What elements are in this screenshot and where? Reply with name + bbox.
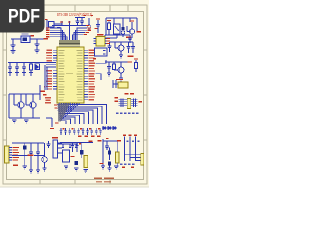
capacitor C8 bbox=[108, 42, 112, 52]
red tick above Q5 bbox=[130, 20, 141, 32]
capacitor C21 bbox=[105, 146, 109, 150]
title text bbox=[57, 12, 92, 17]
red tick above C6 bbox=[95, 18, 100, 29]
wires from U2 top bbox=[50, 21, 88, 40]
ground under C5 bbox=[22, 73, 26, 76]
polar capacitor C23 bbox=[108, 162, 111, 169]
capacitor C19 bbox=[71, 146, 74, 153]
red label under C10 C11 bbox=[128, 56, 134, 57]
red pin labels of J3 bbox=[13, 147, 20, 161]
sheet bottom edge bbox=[0, 186, 149, 189]
capacitor C18 bbox=[47, 141, 51, 148]
connector J5 yellow bottom right bbox=[141, 154, 144, 166]
transistor Q5 far right top bbox=[127, 22, 135, 38]
capacitor C1 bbox=[11, 45, 16, 51]
polar capacitor C21a bbox=[80, 150, 83, 158]
red labels around J2 bbox=[115, 93, 142, 102]
red node dot on wire row bbox=[79, 143, 81, 144]
transistor Q4 circuit bbox=[105, 62, 132, 78]
red label above J4 bbox=[52, 137, 58, 138]
red speck near filter bbox=[45, 19, 48, 20]
capacitor C3 bbox=[8, 63, 12, 73]
red net tick right of pair bbox=[41, 91, 47, 96]
red speck under box bbox=[93, 58, 96, 59]
capacitor C4 bbox=[15, 63, 19, 73]
red tick above R2 bbox=[107, 20, 111, 21]
red tick right of crystal wire bbox=[89, 141, 93, 142]
red net labels left of U2 bbox=[44, 50, 52, 104]
red tick right of Q4 bbox=[128, 61, 133, 62]
red label bottom bbox=[100, 163, 104, 164]
PDF badge bbox=[0, 0, 149, 198]
blue labels by pin headers bbox=[126, 141, 139, 142]
relay K1 box bbox=[114, 24, 121, 34]
U2 top header pins bbox=[59, 40, 80, 47]
component X2 yellow small bbox=[116, 142, 120, 168]
grounds bottom mid-right bbox=[101, 166, 119, 171]
diode row D3 D4 D5 bbox=[102, 126, 117, 129]
capacitor C6 top right bbox=[96, 20, 100, 33]
red net label mid bbox=[13, 155, 34, 166]
transistor Q2 bbox=[30, 102, 36, 108]
component X1 yellow bbox=[113, 79, 128, 88]
capacitor C5 bbox=[22, 63, 26, 73]
red labels above cluster bbox=[98, 138, 122, 142]
wire input to U1 bbox=[11, 39, 21, 45]
top right loop wires bbox=[106, 18, 137, 35]
red tick above R4 bbox=[134, 58, 138, 59]
J2 pin number text row bbox=[116, 113, 139, 115]
transistor Q1 bbox=[18, 102, 24, 108]
resistor R2 bbox=[108, 22, 111, 36]
crystal circuit top wire bbox=[60, 143, 93, 151]
U2 left side pin stubs bbox=[53, 50, 57, 89]
capacitor C13 far right bbox=[128, 38, 132, 43]
connector J3 bottom left bbox=[5, 146, 13, 163]
red specks in capacitor row bbox=[63, 128, 100, 129]
ground under C12 bbox=[107, 73, 111, 76]
red ticks left of wedge bbox=[54, 105, 59, 124]
capacitor C16 bbox=[29, 143, 33, 170]
connector J4 bottom center bbox=[53, 140, 62, 158]
connector J2 vertical header bbox=[127, 99, 130, 109]
ground under C1 bbox=[11, 51, 16, 54]
red net label ticks above U2 bbox=[46, 21, 91, 37]
resistor R1 bbox=[30, 63, 33, 73]
ground under C4 bbox=[15, 73, 19, 76]
diode D2 with cathode dot bbox=[121, 22, 125, 38]
polar capacitor C22 bbox=[108, 148, 111, 161]
red net labels right of U2 bbox=[89, 50, 96, 101]
wire row with taps bbox=[58, 144, 79, 148]
grounds bottom left bbox=[23, 166, 47, 173]
red tips of pin headers bbox=[122, 134, 137, 168]
capacitor C17 bbox=[36, 143, 40, 170]
wire box under U3 bbox=[95, 48, 108, 56]
capacitor C11 bbox=[126, 42, 135, 53]
U2 right side pin stubs bbox=[84, 50, 88, 99]
sheet background bbox=[0, 0, 149, 198]
IC U3 small yellow bbox=[94, 34, 108, 46]
transistor pair circuit wires bbox=[9, 85, 40, 118]
resistor R3 bbox=[113, 62, 116, 70]
capacitor C10 bbox=[127, 42, 131, 53]
red specks top center bbox=[84, 15, 94, 16]
U2 pin name text rows bbox=[59, 50, 83, 100]
IC U2 microcontroller body bbox=[57, 47, 84, 103]
wires from U2 right to clusters bbox=[96, 60, 107, 80]
ground under C3 bbox=[8, 73, 12, 76]
grounds bottom center bbox=[64, 166, 88, 173]
blue pin text under bottom-right headers bbox=[120, 164, 134, 166]
red labels under capacitor row bbox=[78, 136, 101, 137]
tiny capacitor row under ladder bbox=[60, 128, 102, 135]
inductor with node circle bbox=[87, 18, 91, 31]
ground under Q4 bbox=[119, 78, 123, 81]
capacitor C2 bbox=[35, 44, 40, 50]
bottom left bus wires bbox=[12, 143, 45, 166]
regulator U1 bbox=[21, 34, 30, 43]
ground under pair bbox=[12, 120, 28, 123]
bus wedge bbox=[58, 104, 70, 122]
wires top right cluster bbox=[96, 34, 130, 40]
red label crystal bbox=[71, 156, 75, 157]
svg-text:PDF: PDF bbox=[8, 5, 40, 27]
bottom right pin headers bbox=[125, 137, 141, 162]
bottom mid-right cluster wires bbox=[103, 139, 118, 166]
red net tick VCC bbox=[31, 35, 49, 40]
red label right bbox=[126, 37, 131, 38]
box U4 bottom center bbox=[63, 150, 70, 162]
capacitor C20 bbox=[75, 146, 78, 153]
crystal Y1 bbox=[84, 156, 88, 168]
wire fan from U2 bottom bbox=[58, 103, 107, 124]
wire stub with red tick bbox=[46, 118, 54, 129]
resistor R4 bbox=[135, 60, 138, 72]
capacitor pair top center bbox=[75, 18, 85, 27]
ground under Q3 bbox=[119, 55, 123, 58]
polar capacitor C22a bbox=[75, 161, 78, 165]
transistor Q7 bottom left bbox=[42, 143, 48, 168]
ground under R1 bbox=[29, 73, 33, 76]
capacitor C12 bbox=[107, 62, 111, 73]
title block text bottom bbox=[94, 178, 114, 183]
power rail wire bbox=[8, 63, 56, 91]
J2 right pin wires with capacitors bbox=[131, 99, 138, 107]
diode D1 bbox=[35, 64, 40, 70]
J2 left pin wires with capacitors bbox=[119, 99, 128, 107]
ground under C2 bbox=[35, 50, 40, 53]
wire output of U1 bbox=[30, 39, 44, 44]
red dashes right of U3 bbox=[107, 38, 110, 44]
polar capacitor C15 bbox=[23, 143, 27, 154]
filter circuit under title bbox=[47, 20, 62, 30]
transistor Q3 bbox=[110, 42, 126, 55]
